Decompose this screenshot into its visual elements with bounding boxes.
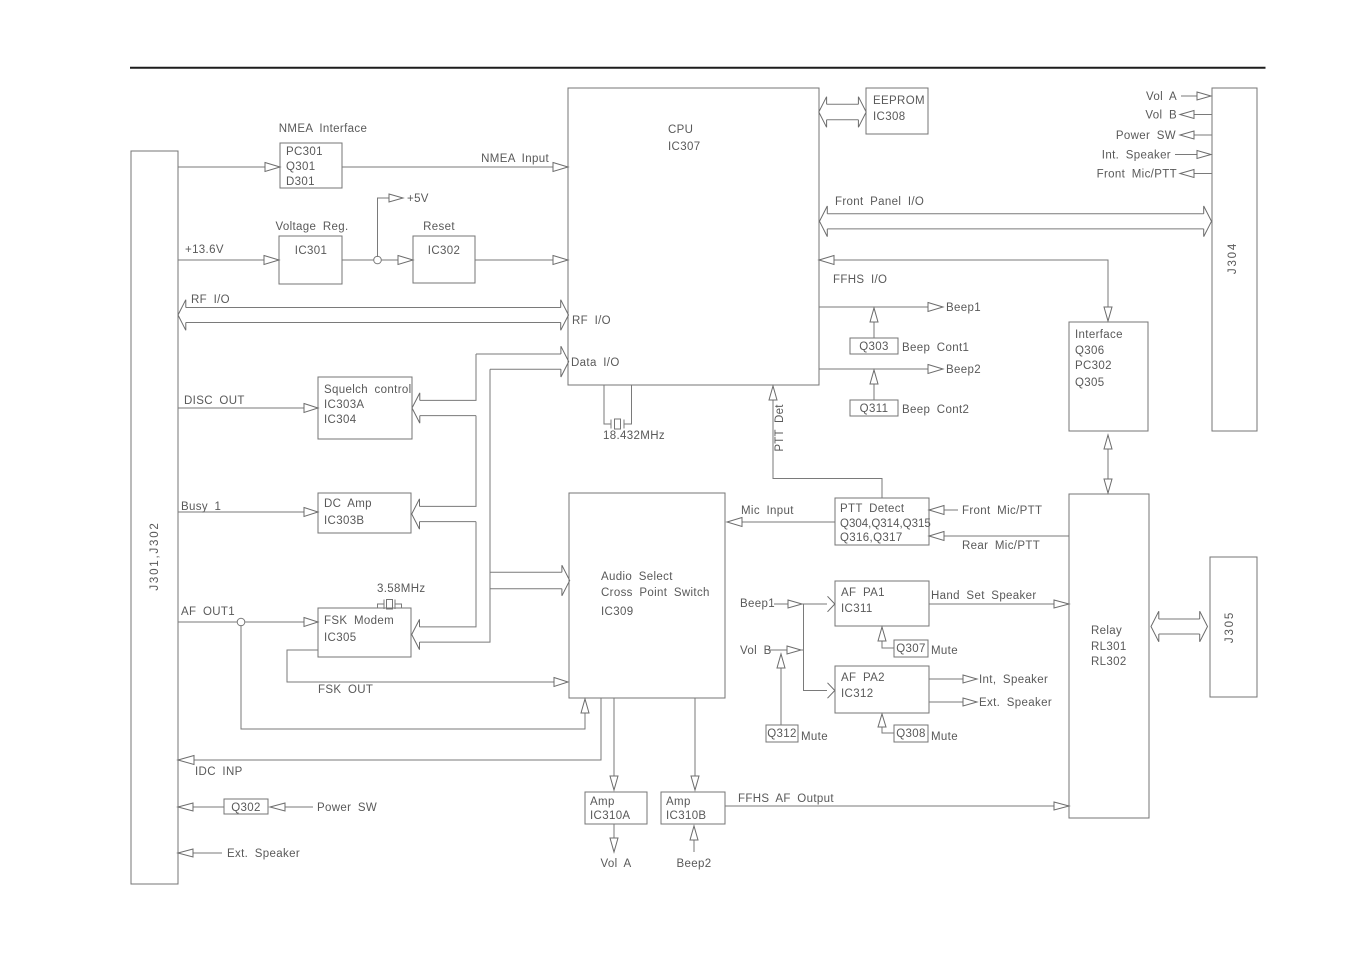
block IC308 EEPROM [866,88,928,134]
svg-text:D301: D301 [286,176,315,188]
svg-text:Mic Input: Mic Input [741,505,794,517]
svg-text:Vol B: Vol B [1145,110,1177,122]
svg-text:Q312: Q312 [767,728,797,740]
svg-text:Audio Select: Audio Select [601,571,673,583]
svg-text:Beep2: Beep2 [676,858,711,870]
wire data bus to squelch in1 [412,354,476,423]
block IC311 AF PA1 [835,581,929,626]
svg-text:Power SW: Power SW [1116,130,1176,142]
svg-text:Relay: Relay [1091,625,1122,637]
svg-text:+13.6V: +13.6V [185,244,224,256]
transistor Q303 [850,308,969,354]
wire data bus branch to audio select and FSK in2 [420,369,570,642]
wire Power SW into Q302 [270,802,377,814]
svg-text:AF PA2: AF PA2 [841,672,885,684]
svg-text:IC311: IC311 [841,603,873,615]
wire IDC INP [178,698,601,778]
svg-text:Rear Mic/PTT: Rear Mic/PTT [962,540,1040,552]
svg-text:IC308: IC308 [873,111,905,123]
svg-text:+5V: +5V [407,193,429,205]
svg-text:FSK Modem: FSK Modem [324,615,394,627]
svg-text:Interface: Interface [1075,329,1123,341]
svg-text:DISC OUT: DISC OUT [184,395,245,407]
wire Ext. Speaker out [929,697,1052,709]
bus RF I/O double arrow [178,294,569,330]
svg-text:IC310B: IC310B [666,810,706,822]
svg-text:PTT Detect: PTT Detect [840,503,905,515]
wire NMEA Input to CPU [342,153,568,172]
svg-text:Beep1: Beep1 [946,302,981,314]
wire audio select to IC310B [691,698,699,790]
crystal 3.58MHz [377,583,425,609]
svg-text:IC302: IC302 [428,245,460,257]
svg-text:Q305: Q305 [1075,377,1105,389]
svg-text:IC307: IC307 [668,141,700,153]
svg-text:EEPROM: EEPROM [873,95,925,107]
crystal 18.432MHz [603,385,665,442]
svg-text:IC301: IC301 [295,245,327,257]
wire Int. Speaker out [929,674,1048,686]
wire FSK OUT [287,650,568,696]
block IC302 Reset [413,221,475,283]
svg-text:Q306: Q306 [1075,345,1105,357]
svg-text:Hand Set Speaker: Hand Set Speaker [931,590,1037,602]
svg-text:Int, Speaker: Int, Speaker [979,674,1048,686]
block IC303A Squelch control [318,377,412,439]
svg-text:Front Panel I/O: Front Panel I/O [835,196,924,208]
power +5V [378,193,429,257]
svg-text:J305: J305 [1224,611,1236,643]
svg-text:Ext. Speaker: Ext. Speaker [979,697,1052,709]
wire Int. Speaker to J304 [1102,150,1211,162]
wire Vol A output [601,824,632,870]
svg-text:Beep Cont1: Beep Cont1 [902,342,969,354]
block IC307 CPU [568,88,819,385]
svg-text:Front Mic/PTT: Front Mic/PTT [962,505,1042,517]
svg-text:IC309: IC309 [601,606,633,618]
svg-text:Vol A: Vol A [1146,91,1177,103]
wire Beep1 into AF PA1 [740,596,835,612]
block IC303B DC Amp [318,493,411,533]
svg-text:Vol B: Vol B [740,645,772,657]
wire Beep1 from CPU with Q303 [819,302,981,314]
svg-text:Cross Point Switch: Cross Point Switch [601,587,710,599]
svg-text:FFHS AF Output: FFHS AF Output [738,793,834,805]
svg-text:Vol A: Vol A [601,858,632,870]
wire FFHS I/O to interface [819,256,1112,322]
svg-text:DC Amp: DC Amp [324,498,372,510]
svg-text:IC303A: IC303A [324,399,364,411]
wire Front Mic/PTT from J304 [1097,169,1212,181]
transistor Q312 [766,654,828,743]
svg-text:Q316,Q317: Q316,Q317 [840,532,903,544]
svg-text:Int. Speaker: Int. Speaker [1102,150,1171,162]
block IC312 AF PA2 [835,666,929,713]
svg-text:Beep Cont2: Beep Cont2 [902,404,969,416]
wire Q302 to J301 [178,803,224,811]
svg-text:PC301: PC301 [286,146,323,158]
svg-text:RF I/O: RF I/O [191,294,230,306]
wire Vol B from J304 [1145,110,1212,122]
svg-text:Q301: Q301 [286,161,316,173]
wire Vol A to J304 [1146,91,1211,103]
svg-text:Beep2: Beep2 [946,364,981,376]
svg-text:Data I/O: Data I/O [571,357,620,369]
svg-text:AF PA1: AF PA1 [841,587,885,599]
svg-text:J304: J304 [1227,242,1239,274]
block Relay RL301 RL302 [1069,494,1149,818]
svg-text:Q308: Q308 [896,728,926,740]
bus Front Panel I/O double arrow [820,196,1212,237]
svg-text:Ext. Speaker: Ext. Speaker [227,848,300,860]
svg-text:RL301: RL301 [1091,641,1127,653]
wire Rear Mic/PTT from relay [929,532,1069,553]
svg-text:Q304,Q314,Q315: Q304,Q314,Q315 [840,518,931,530]
transistor Q307 [878,627,958,657]
block Interface Q306 PC302 Q305 [1069,322,1148,431]
wire Front Mic/PTT into PTT detect [929,505,1042,517]
wire +13.6V from J301 [178,244,279,265]
svg-text:PC302: PC302 [1075,360,1112,372]
wire AF OUT1 [178,606,318,627]
svg-text:IC312: IC312 [841,688,873,700]
svg-text:IC303B: IC303B [324,515,364,527]
wire DISC OUT [178,395,318,413]
svg-text:Q311: Q311 [860,403,889,415]
block IC310B Amp [661,792,725,824]
svg-text:Power SW: Power SW [317,802,377,814]
transistor Q302 [224,799,268,814]
wire DC amp in2 to FSK in1 [412,522,476,650]
wire squelch in2 to DC amp in1 [412,416,476,529]
svg-text:IC310A: IC310A [590,810,630,822]
connector J304 [1212,88,1257,431]
wire J301 to NMEA interface [178,163,280,172]
transistor Q308 [878,714,958,743]
svg-text:IDC INP: IDC INP [195,766,243,778]
block IC310A Amp [585,792,647,824]
svg-text:Mute: Mute [801,731,828,743]
wire IC302 to CPU [475,256,568,265]
wire Busy 1 [178,501,318,517]
svg-text:Amp: Amp [590,796,615,808]
svg-text:RL302: RL302 [1091,656,1127,668]
block PTT Detect [835,498,931,545]
wire Ext. Speaker to J301 [178,848,300,860]
connector J305 [1210,557,1257,697]
wire Mic Input [727,505,835,527]
bus Data I/O into CPU [476,346,569,377]
svg-text:3.58MHz: 3.58MHz [377,583,425,595]
wire Beep2 input [676,826,711,870]
svg-text:NMEA Interface: NMEA Interface [279,123,367,135]
bus Interface to Relay double arrow [1104,435,1112,493]
wire audio select to IC310A [610,698,618,790]
wire Beep2 from CPU with Q311 [819,364,981,376]
svg-text:Q302: Q302 [231,802,261,814]
wire node to IC302 [381,256,413,265]
svg-text:Amp: Amp [666,796,691,808]
bus EEPROM double arrow [819,97,866,128]
wire AF OUT1 node to audio select bottom [241,625,589,729]
svg-text:Mute: Mute [931,645,958,657]
connector J301,J302 [131,151,178,884]
block IC305 FSK Modem [318,608,411,657]
wire junction to AF PA2 [804,604,835,698]
wire Hand Set Speaker [929,590,1069,608]
wire Vol B into junction [740,645,804,657]
title rule [130,67,1266,69]
svg-text:CPU: CPU [668,124,693,136]
svg-text:IC305: IC305 [324,632,356,644]
svg-text:AF OUT1: AF OUT1 [181,606,235,618]
node junction after IC301 [342,256,381,264]
wire Power SW from J304 [1116,130,1212,142]
svg-text:Reset: Reset [423,221,455,233]
block IC301 Voltage Reg. [275,221,348,284]
svg-text:FSK OUT: FSK OUT [318,684,373,696]
svg-text:Voltage Reg.: Voltage Reg. [275,221,348,233]
svg-text:IC304: IC304 [324,414,357,426]
svg-text:Busy 1: Busy 1 [181,501,221,513]
svg-text:PTT Det: PTT Det [774,404,786,452]
svg-text:FFHS I/O: FFHS I/O [833,274,887,286]
wire FFHS AF Output [725,793,1069,810]
svg-text:Mute: Mute [931,731,958,743]
svg-text:NMEA Input: NMEA Input [481,153,549,165]
bus Relay to J305 double arrow [1151,611,1208,642]
transistor Q311 [850,370,969,416]
svg-text:18.432MHz: 18.432MHz [603,430,665,442]
svg-text:J301,J302: J301,J302 [149,521,161,590]
svg-text:Beep1: Beep1 [740,598,775,610]
block IC309 Audio Select Cross Point Switch [569,493,725,698]
svg-text:Q303: Q303 [859,341,889,353]
svg-text:Front Mic/PTT: Front Mic/PTT [1097,169,1177,181]
svg-text:Squelch control: Squelch control [324,384,412,396]
svg-text:RF I/O: RF I/O [572,315,611,327]
svg-text:Q307: Q307 [896,643,926,655]
wire PTT Det to CPU [769,386,882,498]
block PC301 NMEA Interface [279,123,367,188]
